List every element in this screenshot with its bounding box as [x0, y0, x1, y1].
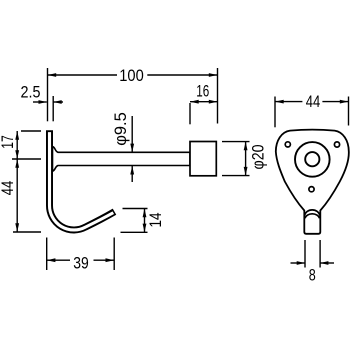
svg-text:14: 14	[146, 213, 165, 228]
svg-text:φ20: φ20	[249, 145, 268, 170]
svg-text:44: 44	[0, 181, 17, 196]
svg-text:16: 16	[196, 82, 209, 101]
svg-text:17: 17	[0, 135, 17, 149]
svg-text:8: 8	[309, 266, 316, 285]
svg-text:φ9.5: φ9.5	[111, 112, 130, 146]
svg-text:44: 44	[306, 92, 321, 111]
svg-text:39: 39	[73, 254, 89, 273]
svg-text:2.5: 2.5	[21, 83, 41, 102]
svg-text:100: 100	[119, 66, 144, 85]
